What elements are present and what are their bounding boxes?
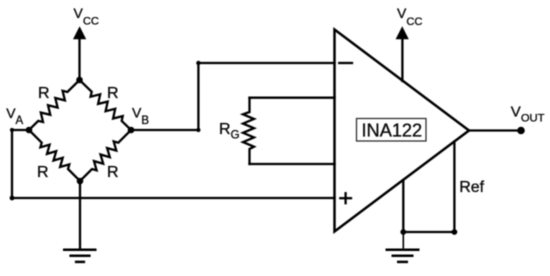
ground (ref) [386,232,420,262]
wire V_CC stem to bridge top [78,39,80,80]
ground (bridge) [63,250,97,262]
junction VB wire corner [196,128,200,132]
svg-text:R: R [38,85,50,102]
wire plus input (node A to op-amp +) [12,197,335,199]
node bridge bottom [77,178,84,185]
wire RG top to op-amp [250,97,335,100]
wire node A to plus-input run [12,130,29,198]
svg-text:R: R [107,164,119,181]
junction ref-ground right [452,229,458,235]
svg-text:Ref: Ref [459,179,484,196]
wire node B to minus input [131,63,335,130]
node output terminal [517,127,525,135]
wire RG bottom to op-amp [250,163,335,165]
INA122 label box [357,119,427,142]
junction minus-input corner [196,61,200,65]
junction VA wire corner [10,128,14,132]
resistor R4 (bridge bottom-right arm) [80,130,131,181]
node B (VB) [128,127,135,134]
resistor R2 (bridge top-right arm) [80,80,132,130]
svg-text:INA122: INA122 [362,120,423,140]
node A (VA) [26,127,33,134]
junction ref-ground left [400,229,406,235]
svg-text:R: R [107,85,119,102]
op-amp U1 triangle [335,30,470,232]
op-amp plus sign [340,197,351,199]
power arrow VCC (op-amp) [396,26,409,39]
wire Ref pin [403,142,454,233]
svg-text:R: R [37,164,49,181]
wire ref drop from bottom edge [402,180,404,232]
wire bridge bottom to ground [79,181,81,248]
wire output [469,129,521,131]
op-amp minus sign [339,62,352,64]
resistor RG [243,98,254,164]
resistor R1 (bridge top-left arm) [29,80,80,130]
node bridge top [76,77,83,84]
junction plus-input corner [10,196,15,201]
wire op-amp VCC stem [401,39,403,81]
power arrow VCC (bridge) [73,26,86,39]
resistor R3 (bridge bottom-left arm) [29,130,80,181]
